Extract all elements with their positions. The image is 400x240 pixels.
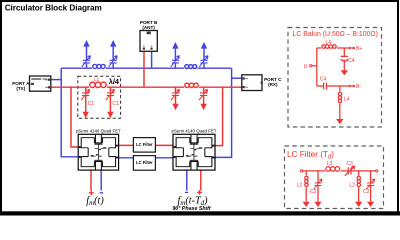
svg-text:(ANT): (ANT) bbox=[142, 25, 155, 30]
svg-text:L1: L1 bbox=[94, 77, 100, 82]
svg-text:Circulator Block Diagram: Circulator Block Diagram bbox=[5, 3, 102, 12]
svg-text:C3: C3 bbox=[346, 161, 353, 167]
svg-text:LC Balun (U:50Ω – B:100Ω): LC Balun (U:50Ω – B:100Ω) bbox=[293, 31, 378, 38]
svg-text:(TX): (TX) bbox=[16, 86, 25, 91]
svg-text:pSemi 4140 Quad FET: pSemi 4140 Quad FET bbox=[76, 129, 121, 134]
svg-text:fm(t): fm(t) bbox=[86, 195, 104, 207]
svg-text:(RX): (RX) bbox=[268, 82, 278, 87]
svg-text:LC Filter (Td): LC Filter (Td) bbox=[287, 150, 334, 160]
svg-text:B+: B+ bbox=[356, 46, 362, 52]
svg-text:pSemi 4140 Quad FET: pSemi 4140 Quad FET bbox=[172, 129, 217, 134]
svg-text:L4: L4 bbox=[344, 96, 350, 102]
svg-text:U: U bbox=[304, 64, 308, 70]
svg-text:C1: C1 bbox=[112, 101, 119, 107]
svg-text:C2: C2 bbox=[363, 189, 370, 195]
svg-text:90° Phase Shift: 90° Phase Shift bbox=[172, 206, 211, 212]
svg-text:C1: C1 bbox=[88, 101, 95, 107]
svg-text:L3: L3 bbox=[327, 161, 333, 167]
svg-text:L2: L2 bbox=[349, 182, 355, 188]
svg-text:LC Filter: LC Filter bbox=[136, 160, 153, 165]
svg-text:B-: B- bbox=[356, 84, 361, 90]
svg-text:LC Filter: LC Filter bbox=[136, 142, 153, 147]
svg-text:L2: L2 bbox=[297, 182, 303, 188]
svg-text:λ/4: λ/4 bbox=[109, 77, 120, 86]
svg-text:C4: C4 bbox=[348, 58, 355, 64]
svg-text:L4: L4 bbox=[326, 40, 332, 46]
svg-text:C4: C4 bbox=[320, 77, 327, 83]
svg-text:C2: C2 bbox=[310, 189, 317, 195]
